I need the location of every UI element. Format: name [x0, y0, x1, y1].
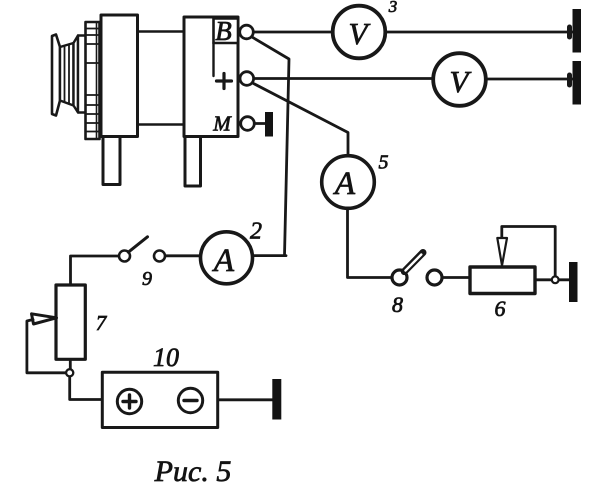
voltmeter V2 — [433, 53, 486, 106]
generator rear mounting foot — [185, 137, 201, 187]
generator pulley — [52, 35, 86, 116]
terminal lug 3 — [569, 262, 578, 302]
rheostat 6 wiper arrow and loop — [497, 227, 558, 284]
svg-text:А: А — [333, 166, 356, 202]
generator rear end bracket — [184, 17, 238, 137]
wire rheostat 6 to terminal lug 3 — [535, 278, 569, 281]
svg-text:В: В — [215, 16, 232, 46]
wire A2 right to vertical branch — [253, 254, 287, 257]
svg-text:6: 6 — [495, 296, 506, 321]
ground lug at terminal M — [254, 112, 273, 137]
wire node to battery — [70, 377, 118, 400]
ammeter A2 — [201, 232, 253, 284]
svg-text:7: 7 — [96, 311, 108, 335]
terminal box with label B — [214, 16, 239, 76]
terminal B — [240, 25, 254, 39]
svg-text:2: 2 — [250, 219, 262, 245]
wire stub at lug 2 — [567, 75, 572, 85]
svg-text:V: V — [349, 16, 371, 51]
generator body — [135, 32, 186, 125]
svg-text:9: 9 — [142, 268, 152, 290]
voltmeter V1 — [333, 6, 386, 59]
wire stub at lug 1 — [567, 27, 572, 37]
terminal lug 2 — [573, 61, 582, 105]
terminal + label — [217, 74, 232, 89]
svg-text:V: V — [450, 64, 472, 99]
terminal lug 1 — [573, 9, 582, 53]
wire battery to terminal lug 4 — [203, 398, 272, 401]
wire switch 8 to rheostat 6 — [442, 276, 470, 279]
rheostat 7 wiper arrow and wire — [27, 314, 66, 373]
svg-text:10: 10 — [153, 343, 179, 372]
wire V1 to terminal lug 1 — [384, 31, 573, 34]
generator front end bracket — [101, 15, 138, 137]
switch 9 — [119, 237, 165, 262]
wire + to voltmeter V2 — [254, 77, 434, 80]
wire switch 9 to rheostat 7 — [71, 256, 120, 285]
generator front mounting foot — [103, 137, 120, 185]
wire + down to ammeter A5 — [251, 82, 348, 156]
wire rheostat 7 to node — [69, 359, 72, 369]
svg-text:А: А — [212, 243, 235, 279]
wire A2 to switch 9 — [165, 254, 200, 257]
switch 8 — [392, 253, 442, 286]
node junction — [66, 369, 73, 376]
terminal M — [241, 117, 255, 131]
rheostat 6 — [470, 267, 535, 294]
ammeter A5 — [322, 156, 375, 209]
wire B to voltmeter V1 — [254, 31, 334, 34]
svg-text:Рис. 5: Рис. 5 — [154, 455, 232, 488]
terminal lug 4 — [272, 379, 281, 420]
rheostat 7 — [56, 285, 85, 359]
generator ribbed collar — [86, 22, 100, 139]
battery 10 — [102, 372, 217, 427]
svg-text:5: 5 — [379, 152, 389, 174]
terminal + — [240, 72, 254, 86]
wire A5 to switch 8 — [348, 208, 393, 278]
svg-text:М: М — [212, 112, 232, 136]
wire V2 to terminal lug 2 — [486, 78, 574, 81]
wire B down to ammeter branch — [251, 36, 289, 255]
svg-text:3: 3 — [388, 0, 398, 16]
svg-text:8: 8 — [392, 292, 403, 317]
